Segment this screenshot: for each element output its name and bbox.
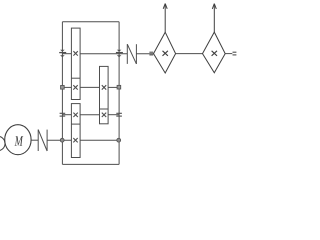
- shaft III: [62, 114, 119, 116]
- bevel unit 2 (diamond): [203, 32, 226, 73]
- thrust bearing: shaft I at right wall: [116, 50, 123, 57]
- bearing square: shaft II at left wall: [61, 86, 65, 90]
- bearing bars: shaft III at right wall: [116, 113, 122, 116]
- gear fixed mark x: bevel unit 2: [212, 51, 217, 56]
- bearing bars: end of bevel line: [233, 52, 237, 55]
- motor label M: [15, 136, 24, 146]
- shaft IV: [47, 139, 119, 141]
- gearbox housing bottom wall: [62, 163, 119, 165]
- motor M: [5, 125, 31, 155]
- wire: bevel unit 2 to end bearing: [225, 53, 232, 55]
- motor housing arc (clipped at image edge): [0, 136, 5, 151]
- gearbox housing right wall: [118, 22, 120, 165]
- gear fixed mark x: B2 on shaft III: [73, 113, 77, 117]
- bearing dot: shaft IV at right wall: [117, 138, 121, 142]
- bearing square: shaft II at right wall: [117, 85, 121, 89]
- gear block B1 (left column, shafts I-II): [71, 28, 80, 99]
- bevel unit 1 (diamond): [154, 32, 176, 73]
- thrust bearing: shaft I at left wall: [59, 50, 66, 57]
- wire: bevel unit 1 to bevel unit 2: [176, 53, 203, 55]
- gear fixed mark x: B3 on shaft III: [102, 113, 106, 117]
- gearbox housing left wall: [61, 22, 63, 165]
- shaft II: [62, 86, 119, 88]
- gear fixed mark x: bevel unit 1: [163, 51, 168, 56]
- shaft I: [62, 53, 153, 55]
- arrow up 2: [212, 4, 216, 32]
- arrow up 1: [163, 4, 167, 33]
- gear block B2 (lower left column, shafts III-IV): [71, 104, 80, 158]
- bearing dot: shaft IV at left wall: [60, 138, 64, 142]
- gear block B3 (right column, shafts II-III): [100, 66, 109, 123]
- wire: motor shaft to coupling C1: [31, 139, 38, 141]
- gear fixed mark x: B3 on shaft II: [102, 85, 106, 89]
- coupling C2 (shaft I to bevel line): [127, 44, 136, 64]
- gear fixed mark x: B2 on shaft IV: [73, 138, 77, 142]
- gear fixed mark x: B1 on shaft II: [73, 85, 77, 89]
- coupling C1 (motor to shaft IV): [38, 130, 47, 151]
- bearing bars: shaft III at left wall: [60, 113, 66, 116]
- gear fixed mark x: B1 on shaft I: [73, 51, 77, 55]
- gearbox housing top wall: [62, 21, 119, 23]
- bearing bars: before bevel unit 1: [149, 52, 153, 55]
